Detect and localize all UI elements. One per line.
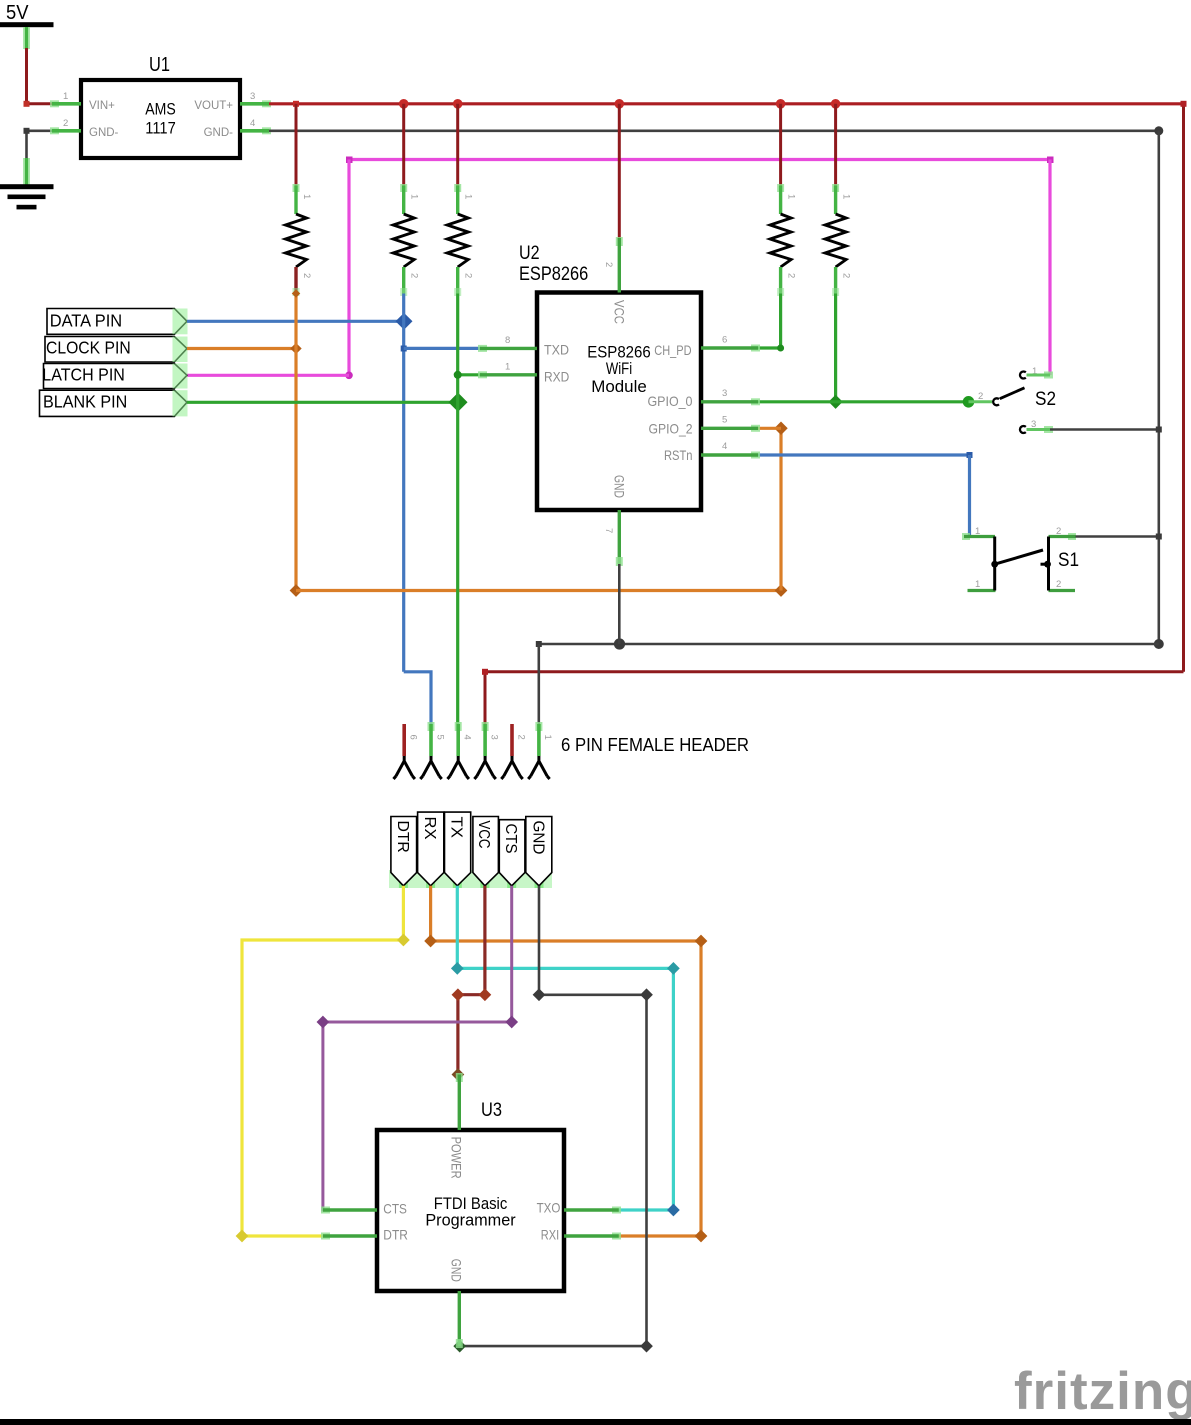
svg-text:2: 2 [409,273,420,278]
S1 body [993,537,996,591]
node blue DATA junction [396,313,413,330]
label RX [418,812,444,886]
node orange R1 bottom [292,289,300,297]
svg-text:GND: GND [448,1259,464,1282]
wire dark red VCC net [452,886,492,1081]
svg-text:GND: GND [529,821,546,855]
U2 pin 6 CH_PD [654,335,760,359]
wire blue DATA horizontal [187,320,404,323]
svg-text:VCC: VCC [612,300,628,324]
U2 pin 2 VCC [603,237,628,324]
wire red stub to R2 [402,104,405,186]
svg-text:6: 6 [722,335,727,346]
svg-text:VIN+: VIN+ [89,100,115,112]
wire orange CLOCK horizontal [187,343,302,354]
svg-text:VOUT+: VOUT+ [194,100,233,112]
S1 pin2 bottom leg [1049,589,1076,592]
wire green R3 vertical to header pin4 [456,294,459,725]
U2 pin 4 RSTn [664,441,760,463]
header pin 4 [448,722,473,779]
wire blue header pin5 drop [404,672,431,724]
svg-text:6 PIN FEMALE HEADER: 6 PIN FEMALE HEADER [561,735,749,755]
svg-text:AMS: AMS [145,101,176,119]
svg-text:DTR: DTR [394,821,411,853]
svg-text:fritzing: fritzing [1014,1362,1191,1421]
node red rail junction R1 [293,101,299,107]
wire blue vertical R2 to header bend [402,294,405,672]
switch S2 [969,366,1057,433]
header pin 3 [474,722,499,779]
wire red stub to R3 [456,104,459,186]
svg-text:8: 8 [505,335,510,346]
svg-text:Programmer: Programmer [425,1211,516,1230]
wire magenta rail [346,157,1054,164]
ground [0,128,54,210]
S1 pin1 bottom leg [968,589,996,592]
label LATCH PIN [42,364,187,389]
U3 pin POWER [448,1073,464,1179]
U1 pin 4 GND- [240,118,271,134]
resistor R2 [393,184,420,296]
svg-text:U1: U1 [149,54,170,76]
svg-text:1: 1 [542,735,553,740]
svg-text:CH_PD: CH_PD [654,342,691,358]
svg-text:RXI: RXI [541,1227,559,1243]
5V power symbol [0,2,54,50]
header pin 1 [528,722,553,779]
U3 pin DTR [321,1227,408,1243]
U1 pin 3 VOUT+ [240,91,271,107]
S2 pin 2 leg (common) [969,400,993,403]
svg-text:LATCH PIN: LATCH PIN [42,365,125,385]
svg-text:CTS: CTS [502,824,519,854]
svg-text:GND-: GND- [204,127,234,139]
svg-text:7: 7 [603,528,614,533]
svg-text:DATA PIN: DATA PIN [50,311,123,331]
wire orange up to GPIO_2 [758,422,788,597]
svg-text:2: 2 [63,118,68,129]
U1 pin 1 VIN+ [50,91,81,107]
wire magenta LATCH vertical [345,160,353,380]
wire red right edge down [1181,101,1187,672]
svg-text:1: 1 [841,194,852,199]
svg-text:S2: S2 [1035,389,1056,410]
wire green BLANK horizontal [187,401,458,404]
U3 pin RXI [541,1227,621,1243]
label DATA PIN [47,309,188,335]
S2 pin 1 leg [1044,372,1053,379]
wire blue TXD link [401,346,481,352]
svg-text:2: 2 [301,273,312,278]
svg-text:3: 3 [488,735,499,740]
svg-text:GPIO_2: GPIO_2 [649,421,693,437]
svg-text:RXD: RXD [544,369,569,385]
svg-text:TXO: TXO [537,1200,561,1216]
resistor R1 [286,184,313,296]
wire green R5 to GPIO_0 [829,294,843,409]
U2 pin 1 RXD [478,362,569,385]
wire red stub to R4 [779,104,782,186]
wire cyan TX net [451,886,680,1217]
svg-text:2: 2 [1056,579,1061,590]
switch S1 pushbutton [962,526,1079,591]
svg-text:3: 3 [250,91,255,102]
wire red stub to R1 [295,104,298,186]
svg-text:U3: U3 [481,1100,502,1121]
svg-text:TX: TX [448,817,465,839]
svg-text:1: 1 [409,194,420,199]
wire purple CTS net [317,886,519,1210]
wire gray S1 pin2 to right rail [1076,534,1162,540]
resistor R4 [770,184,797,296]
node red rail junction R3 [453,99,463,109]
header pin 6 [394,724,419,779]
label TX [445,812,471,886]
U3 pin TXO [537,1200,621,1216]
svg-text:DTR: DTR [383,1227,408,1243]
svg-text:2: 2 [463,273,474,278]
wire red stub to R5 [834,104,837,186]
svg-text:1: 1 [786,194,797,199]
svg-text:CTS: CTS [383,1201,407,1217]
node red rail junction VCC [615,99,625,109]
svg-text:5V: 5V [6,2,29,24]
wire yellow DTR net [236,886,410,1243]
label CLOCK PIN [45,337,188,363]
svg-text:1: 1 [505,362,510,373]
svg-text:4: 4 [250,118,255,129]
svg-text:5: 5 [722,415,727,426]
S2 lever [1000,388,1025,399]
resistor R3 [447,184,474,296]
resistor R5 [825,184,852,296]
wire red stub to ESP VCC [618,104,621,239]
svg-text:CLOCK PIN: CLOCK PIN [46,338,131,358]
U2 pin 5 GPIO_2 [649,415,761,437]
svg-text:1: 1 [301,194,312,199]
wire gray S2 pin3 to right rail [1050,427,1162,433]
U1 pin 2 GND- [50,118,81,134]
label DTR [391,817,417,886]
U2 pin 8 TXD [478,335,569,358]
wire green R4 to CH_PD [758,294,784,352]
svg-text:4: 4 [722,441,727,452]
S2 pin 3 leg [1044,426,1053,433]
label CTS [499,820,525,886]
wire gray GND label net [453,886,653,1353]
node red rail junction R5 [831,99,841,109]
wire gray ESP GND down [618,564,621,644]
svg-text:5: 5 [434,735,445,740]
node green BLANK junction [448,393,467,412]
label BLANK PIN [40,390,188,416]
label glow band under DTR..GND labels [389,870,552,888]
svg-text:GND: GND [612,475,628,498]
svg-text:S1: S1 [1058,550,1079,571]
header pin 5 [420,722,445,779]
node red rail junction R2 [399,99,409,109]
wire gray GND rail top [269,126,1163,135]
wire orange horizontal run [290,584,781,597]
svg-text:GND-: GND- [89,127,119,139]
svg-text:1: 1 [975,579,980,590]
U2 pin 3 GPIO_0 [648,388,761,409]
wire magenta LATCH horizontal [187,374,349,377]
wire magenta S2 drop [1048,160,1051,376]
op-amp U2 ESP8266 module [519,243,701,510]
node red rail junction R4 [776,99,786,109]
node GND junction at ESP GND column [614,638,625,649]
label VCC [473,817,499,886]
svg-text:1: 1 [63,91,68,102]
U3 pin GND [448,1259,464,1348]
svg-text:BLANK PIN: BLANK PIN [43,392,127,412]
op U1 AMS1117 regulator [81,54,240,158]
svg-text:U2: U2 [519,243,540,264]
svg-text:1: 1 [463,194,474,199]
svg-text:RX: RX [421,817,438,840]
wire gray right edge down [1154,131,1164,649]
U3 pin CTS [321,1201,407,1217]
svg-text:GPIO_0: GPIO_0 [648,393,693,409]
U2 pin 7 GND [603,475,628,566]
svg-text:Module: Module [591,377,647,396]
wire orange vertical R1 down [294,294,297,591]
S1 pin1 top leg [962,533,970,540]
wire red power rail top [269,102,1184,105]
header pin 2 [501,724,526,779]
label GND [526,817,552,886]
wire gray header pin1 drop [537,644,540,724]
wire green RXD link [458,373,482,376]
op-amp U3 FTDI Basic Programmer [377,1100,564,1291]
svg-text:2: 2 [603,262,614,267]
wire 5V to U1 VIN+ (red) [24,48,53,107]
wire gray bottom run [536,641,1159,647]
svg-text:ESP8266: ESP8266 [519,264,588,285]
svg-text:2: 2 [786,273,797,278]
svg-text:2: 2 [515,735,526,740]
svg-text:VCC: VCC [475,821,492,849]
svg-text:4: 4 [462,735,473,740]
wire red bottom run to header pin3 [482,669,1184,724]
wire blue RSTn to S1 [758,452,973,537]
wire green GPIO_0 to S2 [758,396,974,408]
svg-text:2: 2 [841,273,852,278]
svg-text:3: 3 [722,388,727,399]
bottom black bar [0,1419,1191,1425]
svg-text:RSTn: RSTn [664,447,693,463]
wire orange RX net [424,886,707,1243]
svg-text:TXD: TXD [544,342,569,358]
svg-text:WiFi: WiFi [606,359,632,378]
svg-text:1117: 1117 [145,120,176,138]
svg-text:POWER: POWER [448,1137,464,1179]
svg-text:6: 6 [408,735,419,740]
S1 pin2 top leg [1068,533,1076,540]
node green RXD junction [454,371,462,379]
